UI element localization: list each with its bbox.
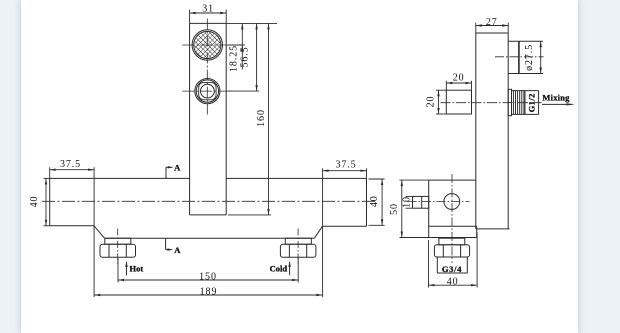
svg-text:18.25: 18.25 bbox=[229, 45, 240, 72]
knob horizontal centerline bbox=[182, 44, 233, 46]
svg-text:40: 40 bbox=[29, 196, 40, 208]
svg-text:160: 160 bbox=[256, 109, 267, 127]
svg-text:20: 20 bbox=[453, 73, 465, 84]
svg-text:150: 150 bbox=[199, 272, 217, 283]
column vertical centerline bbox=[206, 19, 208, 117]
wall stub bbox=[413, 196, 429, 208]
dim 189 bbox=[94, 287, 322, 298]
hole vertical centerline bbox=[451, 174, 453, 263]
svg-text:Cold: Cold bbox=[270, 263, 288, 273]
mixing outlet nipple G1/2 bbox=[508, 89, 538, 115]
diverter horizontal centerline bbox=[182, 90, 233, 92]
outlet hole bbox=[444, 194, 460, 210]
side nut bbox=[434, 245, 469, 257]
dim 40 right bbox=[369, 179, 385, 225]
hot nut bbox=[100, 238, 136, 257]
svg-text:G3/4: G3/4 bbox=[442, 264, 462, 274]
section marker A top bbox=[166, 163, 181, 179]
svg-text:Hot: Hot bbox=[130, 264, 144, 274]
stub centerline bbox=[495, 56, 544, 58]
side washer bbox=[439, 238, 465, 245]
label Cold with leader arrow bbox=[270, 261, 291, 275]
dim 18.25 bbox=[228, 23, 245, 72]
bar cross-section block bbox=[429, 180, 477, 237]
shower outlet stub (top block) bbox=[508, 41, 543, 73]
dim 40 bottom bbox=[429, 232, 478, 288]
hole horizontal centerline bbox=[408, 201, 470, 203]
svg-text:40: 40 bbox=[447, 277, 459, 288]
svg-text:50: 50 bbox=[389, 203, 400, 215]
check valve inlet block 20x20 bbox=[446, 90, 471, 114]
bar centerline bbox=[42, 200, 377, 202]
cold nut bbox=[280, 238, 316, 257]
svg-text:27: 27 bbox=[486, 17, 498, 28]
dim 10 bbox=[402, 196, 413, 208]
svg-text:37.5: 37.5 bbox=[335, 160, 356, 171]
svg-text:A: A bbox=[174, 245, 181, 255]
riser column bbox=[190, 23, 227, 215]
dim 37.5 left bbox=[50, 159, 94, 297]
dim 56.5 bbox=[228, 23, 260, 91]
svg-text:A: A bbox=[174, 163, 181, 173]
dim 160 bbox=[226, 23, 277, 215]
inlet centerline bbox=[441, 102, 542, 104]
flange bottom (side) bbox=[400, 237, 477, 239]
dim 20 left bbox=[425, 90, 446, 114]
svg-text:10: 10 bbox=[402, 196, 413, 208]
dim 31 bbox=[190, 3, 227, 23]
label Hot with leader arrow bbox=[125, 261, 143, 275]
dim 150 bbox=[118, 258, 298, 283]
inlet pipe G3/4 bbox=[437, 257, 467, 273]
svg-text:31: 31 bbox=[202, 3, 214, 14]
svg-text:56.5: 56.5 bbox=[239, 46, 250, 67]
shower knob (hatched circle) bbox=[192, 30, 222, 60]
svg-text:20: 20 bbox=[425, 96, 436, 108]
svg-text:ø27.5: ø27.5 bbox=[524, 44, 535, 71]
dim 50 bbox=[389, 180, 429, 237]
svg-text:189: 189 bbox=[200, 287, 218, 298]
label Mixing with arrow bbox=[542, 92, 575, 105]
dim ø27.5 bbox=[524, 41, 542, 73]
section marker A bottom bbox=[166, 238, 182, 255]
svg-text:Mixing: Mixing bbox=[542, 92, 570, 102]
diverter knob circle bbox=[195, 79, 220, 104]
hot nut centerline bbox=[117, 229, 119, 266]
cold nut centerline bbox=[297, 229, 299, 266]
dim 37.5 right bbox=[323, 160, 367, 297]
svg-text:40: 40 bbox=[369, 195, 380, 207]
dim 27 bbox=[476, 17, 508, 33]
body bar bbox=[50, 178, 367, 238]
svg-text:37.5: 37.5 bbox=[60, 159, 81, 170]
side column bbox=[476, 33, 510, 229]
dim 20 top bbox=[446, 73, 471, 91]
dim 40 left bbox=[29, 178, 50, 225]
